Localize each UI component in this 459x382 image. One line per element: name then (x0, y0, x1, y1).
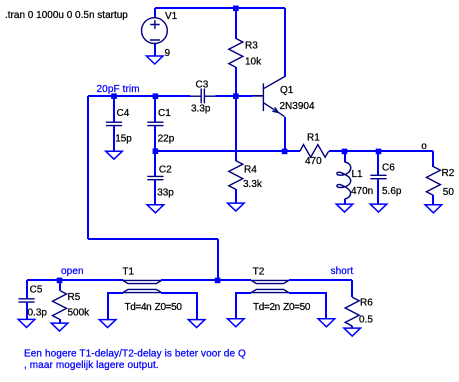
wire C3 left lead (190, 95, 201, 97)
wire feedback horizontal (88, 238, 218, 240)
wire drop to T junction (217, 239, 219, 280)
wire Q1 base lead (252, 95, 263, 97)
svg-text:500k: 500k (68, 307, 91, 318)
node junction C1/C2 (153, 148, 159, 154)
node junction R3 top (233, 6, 239, 12)
wire emitter rail (155, 150, 300, 152)
wire C4 top lead (113, 96, 115, 122)
capacitor C1 (147, 122, 163, 125)
ground T1 right (188, 320, 205, 328)
wire T1 bottom left (108, 293, 123, 320)
transmission line T1 (123, 280, 162, 292)
resistor R3 (229, 38, 243, 67)
capacitor C4 (106, 122, 122, 125)
wire base rail left of C3 (88, 95, 190, 97)
wire C1 bottom lead (154, 126, 156, 151)
resistor R4 (229, 161, 243, 190)
svg-text:o: o (421, 141, 427, 152)
capacitor C2 (147, 176, 163, 179)
svg-text:R5: R5 (68, 292, 81, 303)
wire L1 bottom lead (344, 199, 346, 204)
wire C1 top lead (154, 96, 156, 122)
svg-text:, maar mogelijk lagere output.: , maar mogelijk lagere output. (24, 360, 159, 371)
ground below R5 (51, 323, 68, 331)
svg-text:C3: C3 (196, 80, 209, 91)
svg-text:T2: T2 (253, 266, 265, 277)
wire C3 right lead (205, 95, 216, 97)
resistor R5 (53, 290, 67, 319)
wire bottom rail left (27, 279, 123, 281)
svg-text:Een hogere T1-delay/T2-delay i: Een hogere T1-delay/T2-delay is beter vo… (24, 348, 246, 359)
ground below L1 (336, 204, 353, 212)
capacitor C5 (18, 299, 34, 302)
svg-text:20pF trim: 20pF trim (97, 84, 140, 95)
svg-text:9: 9 (165, 48, 171, 59)
svg-text:Q1: Q1 (280, 85, 294, 96)
wire C5 corner (26, 280, 28, 299)
svg-text:470n: 470n (351, 186, 373, 197)
resistor R2 (426, 167, 440, 196)
svg-text:10k: 10k (245, 56, 262, 67)
wire V1 top stub (154, 8, 156, 18)
wire R6 bottom lead (351, 326, 353, 328)
wire R4 bottom lead (235, 189, 237, 203)
svg-text:Td=2n Z0=50: Td=2n Z0=50 (253, 302, 311, 313)
ground T1 left (99, 320, 116, 328)
wire emitter drop (284, 117, 286, 151)
svg-text:470: 470 (305, 156, 322, 167)
svg-text:C4: C4 (117, 108, 130, 119)
node junction C1 top (153, 93, 159, 99)
capacitor C6 (370, 175, 386, 178)
svg-text:5.6p: 5.6p (382, 186, 402, 197)
svg-text:R6: R6 (360, 297, 373, 308)
capacitor C3 (201, 89, 204, 104)
ground below C6 (370, 204, 387, 212)
wire R2 bottom lead (432, 195, 434, 205)
svg-text:R1: R1 (307, 133, 320, 144)
wire R1 to output (329, 150, 433, 152)
wire top rail (155, 7, 285, 9)
svg-text:Td=4n Z0=50: Td=4n Z0=50 (125, 302, 183, 313)
ground below R6 (344, 328, 361, 336)
wire R6 corner (351, 280, 353, 297)
svg-text:C6: C6 (382, 163, 395, 174)
transistor Q1 (252, 77, 285, 117)
wire T2 bottom left (236, 293, 251, 319)
wire C2 top lead (154, 151, 156, 176)
node junction T1/T2 (215, 278, 221, 284)
wire R5 bottom lead (59, 319, 61, 323)
svg-text:22p: 22p (158, 134, 175, 145)
svg-text:.tran 0 1000u 0 0.5n startup: .tran 0 1000u 0 0.5n startup (5, 10, 128, 21)
svg-text:open: open (61, 266, 84, 277)
wire T1 bottom right (161, 293, 197, 320)
node junction L1 (342, 149, 348, 155)
svg-text:15p: 15p (115, 134, 132, 145)
ground below C2 (147, 205, 164, 213)
wire R3 bottom lead (235, 67, 237, 96)
wire base rail right of C3 (216, 95, 253, 97)
node junction C6 (376, 149, 382, 155)
wire bottom rail right (289, 279, 352, 281)
node junction C4 (111, 93, 117, 99)
wire bottom rail mid (161, 279, 251, 281)
svg-text:0.5: 0.5 (359, 314, 373, 325)
svg-text:V1: V1 (165, 11, 178, 22)
svg-text:R3: R3 (245, 41, 258, 52)
svg-text:R2: R2 (442, 168, 455, 179)
wire output corner (432, 151, 434, 167)
node junction base/R3/R4/C3 (233, 93, 239, 99)
wire C6 top lead (377, 151, 379, 175)
wire collector drop (284, 8, 286, 77)
resistor R6 (345, 297, 359, 326)
ground below V1 (146, 56, 163, 64)
ground below R4 (228, 203, 245, 211)
svg-text:C2: C2 (159, 164, 172, 175)
inductor L1 (337, 162, 351, 199)
transmission line T2 (251, 280, 289, 292)
svg-text:C5: C5 (30, 284, 43, 295)
svg-text:3.3p: 3.3p (191, 104, 211, 115)
wire R5 top lead (59, 280, 61, 290)
svg-text:50: 50 (443, 187, 455, 198)
ground T2 left (228, 319, 245, 327)
ground below R2 (425, 205, 442, 213)
voltage source V1 (142, 18, 168, 44)
wire C2 bottom lead (154, 180, 156, 205)
svg-text:3.3k: 3.3k (243, 179, 263, 190)
wire R4 top lead (235, 96, 237, 161)
resistor R1 (300, 145, 329, 158)
svg-text:short: short (331, 266, 354, 277)
wire C6 bottom lead (377, 179, 379, 204)
ground below C4 (106, 151, 123, 159)
wire left riser (87, 96, 89, 239)
node junction emitter/R1 (282, 149, 288, 155)
svg-text:R4: R4 (244, 164, 257, 175)
svg-text:0.3p: 0.3p (28, 307, 48, 318)
node junction open/R5 (57, 278, 63, 284)
wire V1 bottom stub (154, 44, 156, 56)
wire L1 top lead (344, 151, 346, 162)
wire C4 bottom lead (113, 126, 115, 151)
svg-text:33p: 33p (157, 188, 174, 199)
ground T2 right (318, 319, 335, 327)
wire C5 bottom lead (26, 302, 28, 319)
svg-text:L1: L1 (352, 169, 364, 180)
ground below C5 (18, 319, 35, 327)
wire T2 bottom right (289, 293, 326, 319)
wire R3 top lead (235, 8, 237, 39)
svg-text:C1: C1 (158, 108, 171, 119)
svg-text:2N3904: 2N3904 (280, 101, 315, 112)
svg-text:T1: T1 (122, 266, 134, 277)
